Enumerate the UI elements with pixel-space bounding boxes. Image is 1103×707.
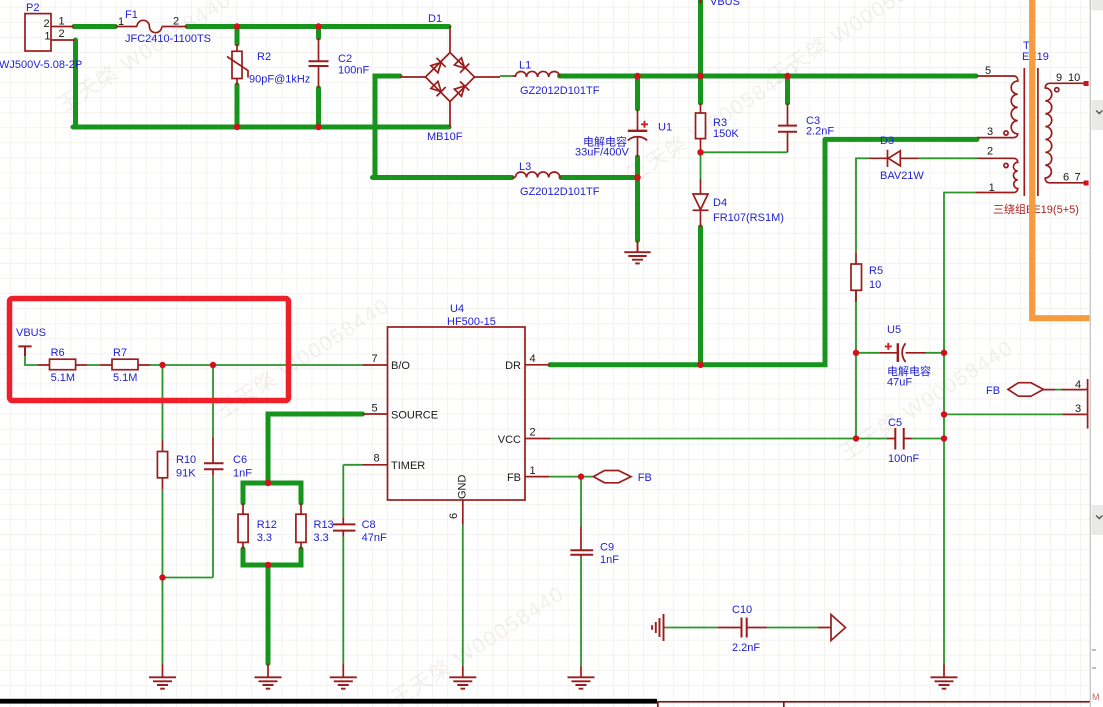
B/O pin lead <box>363 364 388 366</box>
junction pin3 wire <box>941 411 947 417</box>
C6 leads <box>212 437 214 475</box>
ground lead R12R13 <box>267 664 269 678</box>
capacitor C6 <box>204 463 224 469</box>
svg-text:C9: C9 <box>600 542 614 554</box>
svg-text:R5: R5 <box>869 265 883 277</box>
ground C8 <box>330 677 357 688</box>
WIRES-THIN <box>25 76 1063 666</box>
svg-text:U1: U1 <box>658 122 672 134</box>
FB net flag right <box>1008 383 1043 397</box>
wire GND pin6 <box>462 525 464 666</box>
junction C5 left <box>853 435 859 441</box>
svg-text:R2: R2 <box>257 51 271 63</box>
svg-text:2.2nF: 2.2nF <box>806 126 834 138</box>
junction bottom rail R2 <box>234 124 240 130</box>
capacitor C8 <box>333 524 355 530</box>
ground lead C9 <box>580 666 582 677</box>
VBUS net flag <box>18 346 31 356</box>
junction VBUS R3 <box>697 73 703 79</box>
wire drain to transformer pin3 <box>550 139 977 364</box>
wire pin1 vertical rail <box>944 193 976 664</box>
wire top rail left segment <box>74 24 116 29</box>
DR pin lead <box>525 364 550 366</box>
ground C9 <box>568 677 595 688</box>
TEXT LABELS BLACK <box>44 16 1082 520</box>
svg-text:L3: L3 <box>519 161 531 173</box>
C10 leads <box>664 627 832 629</box>
svg-text:D1: D1 <box>428 13 442 25</box>
transformer T1 secondary winding <box>1045 83 1051 183</box>
svg-text:47uF: 47uF <box>887 377 912 389</box>
C5 leads <box>887 438 912 440</box>
wire pin3 connector <box>944 413 1063 415</box>
pin square 6 7 <box>1084 181 1089 186</box>
junction R3 C3 bottom <box>697 149 703 155</box>
transformer pin2 lead <box>977 157 1011 159</box>
fuse F1 leads <box>116 26 188 28</box>
junction C5 right <box>941 435 947 441</box>
C9 leads <box>580 526 582 557</box>
capacitor C3 <box>778 126 797 132</box>
ground C10 rotated <box>652 614 663 641</box>
svg-text:U5: U5 <box>887 324 901 336</box>
junction U5 right <box>941 350 947 356</box>
svg-text:TIMER: TIMER <box>391 460 425 472</box>
svg-text:1: 1 <box>118 16 124 28</box>
resistor R5 <box>851 264 862 290</box>
capacitor C5 <box>895 428 903 450</box>
R7 leads <box>100 364 150 366</box>
svg-text:HF500-15: HF500-15 <box>447 316 496 328</box>
wire FB flag to pin4 <box>1055 389 1062 391</box>
U5 leads <box>879 352 926 354</box>
WIRES-THICK <box>73 0 977 664</box>
junction drain VBUS <box>697 362 703 368</box>
inductor L1 <box>515 71 559 77</box>
svg-text:3.3: 3.3 <box>257 532 272 544</box>
svg-text:MB10F: MB10F <box>427 131 463 143</box>
svg-text:10: 10 <box>1068 72 1080 84</box>
resistor R12 <box>238 514 248 542</box>
junction U5 left <box>853 350 859 356</box>
svg-text:1: 1 <box>59 16 65 28</box>
svg-text:91K: 91K <box>176 468 196 480</box>
transformer pin3 lead <box>977 137 1011 139</box>
U1 leads <box>637 109 639 157</box>
wire TIMER to C8 <box>343 465 362 664</box>
P2 pin leads <box>51 27 75 41</box>
svg-text:9: 9 <box>1056 72 1062 84</box>
GND pin lead <box>462 500 464 525</box>
svg-text:D3: D3 <box>880 135 894 147</box>
diode D4 <box>693 194 709 210</box>
svg-text:GZ2012D101TF: GZ2012D101TF <box>520 85 600 97</box>
svg-text:90pF@1kHz: 90pF@1kHz <box>249 74 310 86</box>
wire R3 C3 link <box>701 152 788 179</box>
svg-text:150K: 150K <box>713 128 739 140</box>
D4 leads <box>700 179 702 227</box>
wire R2 stubs <box>235 29 240 125</box>
svg-text:JFC2410-1100TS: JFC2410-1100TS <box>125 33 211 45</box>
FB flag right lead <box>1043 389 1085 391</box>
junction R10 C6 bottom <box>159 574 165 580</box>
pin3 connector lead <box>1063 413 1086 415</box>
transformer pin5 lead <box>977 75 1011 77</box>
svg-text:100nF: 100nF <box>338 65 369 77</box>
wire P2 pin1 vertical and bottom rail <box>73 40 449 127</box>
wire top rail right segment <box>187 24 449 29</box>
svg-text:2: 2 <box>530 427 536 439</box>
svg-text:GZ2012D101TF: GZ2012D101TF <box>520 186 600 198</box>
junction R6 R10 <box>159 362 165 368</box>
junction top rail R2 <box>234 23 240 29</box>
svg-text:5.1M: 5.1M <box>113 372 137 384</box>
R2 leads <box>236 44 238 85</box>
junction bottom rail C2 <box>315 124 321 130</box>
R12 leads <box>242 503 244 549</box>
wire D3 right to pin2 <box>919 157 977 159</box>
transformer pin1 lead <box>976 192 1011 194</box>
FB pin lead <box>525 476 549 478</box>
svg-text:L1: L1 <box>519 60 531 72</box>
bridge rectifier D1 <box>426 53 475 102</box>
svg-text:C10: C10 <box>732 604 752 616</box>
svg-text:2: 2 <box>987 146 993 158</box>
junction R12R13 bottom <box>265 562 271 568</box>
svg-text:C5: C5 <box>888 417 902 429</box>
wire R6 R7 to B/O <box>87 364 363 366</box>
svg-text:VBUS: VBUS <box>16 327 46 339</box>
junction L3 U1 <box>634 174 640 180</box>
C2 leads <box>318 38 320 88</box>
L3 leads <box>512 177 562 179</box>
svg-text:33uF/400V: 33uF/400V <box>575 147 629 159</box>
R3 leads <box>700 103 702 152</box>
junction R7 C6 <box>210 362 216 368</box>
svg-text:R6: R6 <box>51 347 65 359</box>
svg-text:R12: R12 <box>257 519 277 531</box>
output port flag C10 <box>831 615 846 641</box>
svg-text:BAV21W: BAV21W <box>880 170 924 182</box>
ground R12R13 <box>255 677 282 688</box>
wire SOURCE to R12R13 <box>268 414 363 481</box>
orange highlight path <box>1032 0 1089 318</box>
R13 leads <box>300 503 302 549</box>
junction FB C9 <box>578 473 584 479</box>
svg-text:1nF: 1nF <box>233 468 252 480</box>
wire bridge left vertical to L3 <box>373 76 513 178</box>
svg-text:7: 7 <box>372 353 378 365</box>
svg-text:FB: FB <box>507 472 521 484</box>
transformer T1 primary winding <box>1011 76 1018 138</box>
ground U1 <box>624 241 650 264</box>
svg-text:2.2nF: 2.2nF <box>732 642 760 654</box>
svg-text:VCC: VCC <box>498 434 521 446</box>
svg-text:1: 1 <box>530 465 536 477</box>
svg-text:7: 7 <box>1075 172 1081 184</box>
svg-text:5.1M: 5.1M <box>51 372 75 384</box>
FB net flag left <box>593 471 631 483</box>
wire VBUS vertical <box>698 0 703 103</box>
svg-text:U4: U4 <box>450 303 464 315</box>
wire L3 to U1 junction <box>561 175 638 180</box>
capacitor C9 <box>570 550 593 555</box>
resistor R3 <box>696 113 706 139</box>
svg-text:2: 2 <box>44 18 50 30</box>
ground lead pin1 rail <box>943 664 945 678</box>
svg-text:GND: GND <box>457 475 469 500</box>
svg-text:FB: FB <box>986 385 1000 397</box>
junction U1 top <box>634 73 640 79</box>
svg-text:FR107(RS1M): FR107(RS1M) <box>713 212 784 224</box>
wire L1 lead green <box>500 75 513 77</box>
transformer pin9 10 lead <box>1051 82 1086 84</box>
wire R12 R13 top bar <box>243 483 301 503</box>
wire FB pin <box>549 476 593 478</box>
ground pin1 rail <box>931 677 958 688</box>
svg-text:VBUS: VBUS <box>710 0 740 8</box>
SOURCE pin lead <box>363 413 388 415</box>
wire R12 R13 bottom bar to ground <box>243 549 301 664</box>
transformer T1 core <box>1024 68 1038 196</box>
wire C6 branch <box>163 365 214 578</box>
svg-text:B/O: B/O <box>391 360 410 372</box>
svg-text:8: 8 <box>374 453 380 465</box>
D1 leads <box>400 27 500 128</box>
resistor R6 <box>50 359 76 370</box>
ground lead GND6 <box>462 666 464 677</box>
capacitor C10 <box>742 618 747 638</box>
capacitor C2 <box>309 61 329 66</box>
svg-text:P2: P2 <box>26 2 39 14</box>
wire VBUS flag to R6 <box>25 356 38 365</box>
fuse F1 <box>137 20 162 32</box>
wire C9 branch <box>580 477 582 666</box>
transformer T1 aux winding <box>1011 158 1018 192</box>
svg-text:47nF: 47nF <box>362 532 387 544</box>
junction top rail C2 <box>315 23 321 29</box>
svg-text:3: 3 <box>987 126 993 138</box>
svg-text:2: 2 <box>173 16 179 28</box>
svg-text:EE19: EE19 <box>1022 51 1049 63</box>
R6 leads <box>38 364 88 366</box>
L1 leads <box>513 75 516 77</box>
wire L1 to transformer pin5 rail <box>560 74 977 79</box>
R10 leads <box>162 441 164 490</box>
wire U1 bottom to ground <box>635 157 640 241</box>
bottom red frame line <box>657 702 1103 707</box>
svg-text:R7: R7 <box>113 347 127 359</box>
svg-text:SOURCE: SOURCE <box>391 410 438 422</box>
varistor R2 <box>227 51 248 78</box>
svg-text:M: M <box>1092 692 1100 702</box>
svg-text:三绕组EE19(5+5): 三绕组EE19(5+5) <box>993 202 1079 216</box>
TIMER pin lead <box>363 464 388 466</box>
svg-text:100nF: 100nF <box>888 453 919 465</box>
svg-text:4: 4 <box>530 353 536 365</box>
resistor R7 <box>112 359 138 370</box>
svg-text:WJ500V-5.08-2P: WJ500V-5.08-2P <box>0 59 82 71</box>
svg-text:3: 3 <box>1075 403 1081 415</box>
svg-text:C8: C8 <box>362 519 376 531</box>
inductor L3 <box>515 172 559 178</box>
connector sliver right edge <box>1086 379 1088 429</box>
wire C3 top stub <box>785 76 790 103</box>
wire R5 to C5 left <box>856 290 944 438</box>
pin square 9 10 <box>1084 81 1089 86</box>
svg-text:F1: F1 <box>125 9 138 21</box>
ground R10 <box>149 677 176 688</box>
R5 leads <box>855 252 857 302</box>
svg-text:1: 1 <box>989 182 995 194</box>
IC U4 HF500-15 <box>388 327 526 500</box>
svg-text:D4: D4 <box>713 197 727 209</box>
C3 leads <box>787 103 789 152</box>
electrolytic capacitor U1 <box>628 121 648 141</box>
svg-text:4: 4 <box>1075 379 1081 391</box>
diode D3 <box>888 150 901 167</box>
C8 leads <box>342 518 344 537</box>
svg-text:2: 2 <box>59 28 65 40</box>
resistor R13 <box>296 514 306 542</box>
black bottom bar <box>0 699 657 704</box>
wire D4 to drain rail <box>698 227 703 365</box>
electrolytic capacitor U5 <box>885 343 906 362</box>
wire C10 links <box>665 627 819 629</box>
transformer pin6 7 lead <box>1051 182 1086 184</box>
svg-text:5: 5 <box>985 65 991 77</box>
right side panel <box>1090 0 1103 707</box>
GROUND SYMBOLS <box>149 241 958 689</box>
svg-text:10: 10 <box>869 279 881 291</box>
svg-text:FB: FB <box>638 472 652 484</box>
red highlight box <box>10 299 289 401</box>
wire R10 branch <box>162 365 164 664</box>
resistor R10 <box>157 452 167 478</box>
svg-text:C2: C2 <box>338 53 352 65</box>
wire D3 left to R5 <box>856 158 869 252</box>
transformer polarity dots <box>1004 131 1008 135</box>
svg-text:DR: DR <box>505 360 521 372</box>
ground lead C8 <box>342 664 344 677</box>
connector P2 <box>25 14 51 51</box>
D3 leads <box>869 157 919 159</box>
junction R12R13 top <box>265 480 271 486</box>
junction C3 top <box>784 73 790 79</box>
VCC pin lead <box>525 438 550 440</box>
svg-text:R10: R10 <box>176 454 196 466</box>
svg-text:R13: R13 <box>314 519 334 531</box>
ground lead R10 <box>162 664 164 677</box>
svg-text:1: 1 <box>44 31 50 43</box>
svg-text:5: 5 <box>372 403 378 415</box>
svg-text:6: 6 <box>1063 172 1069 184</box>
svg-text:C6: C6 <box>233 454 247 466</box>
svg-text:6: 6 <box>448 513 460 519</box>
wire VCC to C5 <box>550 438 944 440</box>
wire U1 top stub <box>635 76 640 109</box>
svg-text:1nF: 1nF <box>600 554 619 566</box>
svg-text:3.3: 3.3 <box>314 532 329 544</box>
ground GND6 <box>449 677 476 688</box>
wire C2 stubs <box>316 29 321 125</box>
